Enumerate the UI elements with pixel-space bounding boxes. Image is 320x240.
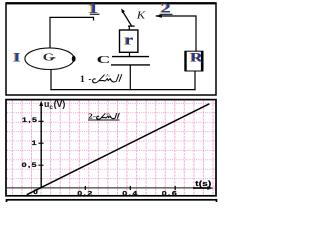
grid vertical lines (pink) bbox=[12, 101, 213, 195]
current label I bbox=[12, 50, 20, 65]
resistor R box bbox=[184, 51, 203, 71]
svg-text:R: R bbox=[190, 52, 203, 65]
wire: bottom rail bbox=[50, 89, 195, 91]
generator U1 (ellipse with G) bbox=[25, 48, 76, 70]
wire 2: top-right wire with arrowhead to right branch bbox=[155, 14, 196, 51]
wire: R to bottom rail bbox=[194, 71, 196, 90]
capacitor C plates bbox=[111, 57, 150, 65]
wire: top wire from generator to contact 1 bbox=[50, 17, 94, 48]
R value label bbox=[189, 52, 203, 65]
y axis ticks bbox=[38, 121, 43, 165]
svg-text:1,5: 1,5 bbox=[22, 116, 38, 124]
y axis bbox=[39, 101, 43, 189]
svg-text:2: 2 bbox=[161, 0, 171, 15]
svg-text:I: I bbox=[13, 50, 20, 64]
svg-text:0.4: 0.4 bbox=[122, 189, 139, 197]
third frame (cut off at bottom) bbox=[7, 200, 217, 206]
figure 2 caption "2-alshakl" underlined bbox=[88, 112, 120, 121]
svg-text:C: C bbox=[97, 54, 111, 65]
svg-text:2-: 2- bbox=[88, 112, 96, 121]
G symbol inside generator bbox=[43, 52, 56, 63]
svg-text:1 -: 1 - bbox=[80, 75, 92, 85]
wire: generator bottom to bottom rail bbox=[50, 69, 52, 90]
x axis ticks bbox=[85, 186, 175, 190]
figure 2 frame bbox=[6, 100, 216, 196]
node 1 (contact label 1) bbox=[87, 0, 100, 16]
x axis (gray) bbox=[7, 186, 214, 190]
svg-text:1: 1 bbox=[32, 139, 38, 147]
figure 1 caption: "alshakl - 1" bbox=[80, 74, 122, 85]
svg-text:(V): (V) bbox=[54, 99, 66, 109]
wire: capacitor to bottom rail bbox=[129, 65, 131, 90]
switch K lever with arrowhead bbox=[121, 9, 134, 27]
u_c(V) axis label bbox=[44, 99, 65, 111]
node 2 (contact label 2) bbox=[160, 0, 173, 15]
svg-text:0,5: 0,5 bbox=[22, 161, 38, 169]
grid horizontal lines (pink dotted) bbox=[7, 103, 215, 188]
u_c(t) line bbox=[27, 104, 210, 195]
svg-text:0.2: 0.2 bbox=[77, 189, 94, 197]
resistor r box bbox=[120, 26, 138, 53]
svg-text:r: r bbox=[125, 32, 134, 48]
r value label bbox=[123, 32, 133, 48]
figure 1 frame bbox=[6, 3, 216, 95]
wire: r to capacitor bbox=[129, 52, 131, 56]
svg-text:t(s): t(s) bbox=[195, 179, 211, 187]
svg-text:K: K bbox=[136, 9, 147, 21]
svg-text:0.6: 0.6 bbox=[162, 189, 179, 197]
